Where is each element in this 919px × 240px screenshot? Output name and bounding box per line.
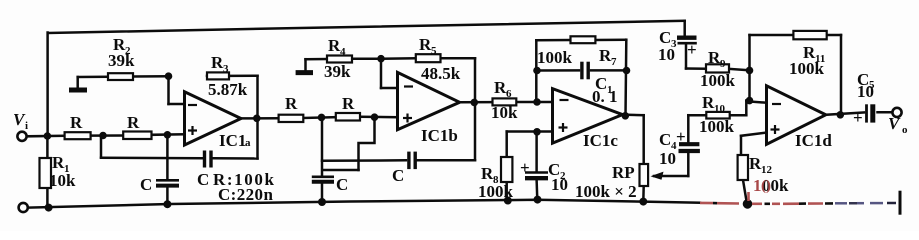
- svg-text:+: +: [676, 127, 686, 146]
- svg-text:39k: 39k: [108, 51, 135, 70]
- svg-text:RP: RP: [612, 163, 635, 182]
- svg-text:+: +: [520, 158, 530, 177]
- svg-text:IC1: IC1: [219, 131, 246, 150]
- svg-text:i: i: [25, 120, 28, 132]
- svg-text:10: 10: [659, 149, 676, 168]
- svg-text:5: 5: [431, 45, 437, 57]
- svg-text:C:220n: C:220n: [218, 185, 273, 204]
- svg-text:100k: 100k: [699, 117, 735, 136]
- svg-text:5.87k: 5.87k: [208, 80, 248, 99]
- svg-text:R: R: [342, 94, 355, 113]
- svg-text:0. 1: 0. 1: [592, 87, 618, 106]
- svg-text:o: o: [902, 124, 908, 136]
- svg-text:100k: 100k: [700, 71, 736, 90]
- svg-text:3: 3: [223, 63, 229, 75]
- svg-text:R: R: [127, 113, 140, 132]
- svg-text:6: 6: [506, 88, 512, 100]
- svg-text:a: a: [245, 137, 251, 149]
- svg-text:100k: 100k: [789, 59, 825, 78]
- svg-text:C: C: [197, 170, 209, 189]
- svg-text:10k: 10k: [491, 103, 518, 122]
- svg-text:9: 9: [720, 58, 726, 70]
- svg-text:10: 10: [714, 103, 726, 115]
- svg-text:C: C: [659, 130, 671, 149]
- svg-text:39k: 39k: [324, 62, 351, 81]
- svg-text:100k × 2: 100k × 2: [575, 182, 637, 201]
- svg-text:C: C: [336, 175, 348, 194]
- svg-text:100k: 100k: [478, 182, 514, 201]
- svg-text:V: V: [888, 114, 901, 133]
- svg-text:(): (): [761, 178, 771, 194]
- svg-text:+: +: [853, 108, 863, 127]
- svg-text:10: 10: [551, 175, 568, 194]
- svg-text:+: +: [687, 40, 697, 59]
- svg-text:10k: 10k: [49, 171, 76, 190]
- svg-text:7: 7: [611, 56, 617, 68]
- svg-text:R: R: [70, 113, 83, 132]
- svg-text:10: 10: [658, 45, 675, 64]
- svg-text:IC1c: IC1c: [583, 131, 618, 150]
- svg-text:12: 12: [761, 164, 773, 176]
- svg-text:4: 4: [340, 46, 346, 58]
- svg-text:10: 10: [857, 82, 874, 101]
- svg-text:C: C: [140, 175, 152, 194]
- svg-text:R: R: [285, 94, 298, 113]
- svg-text:100k: 100k: [537, 48, 573, 67]
- svg-text:C: C: [392, 166, 404, 185]
- svg-text:IC1d: IC1d: [795, 131, 832, 150]
- svg-text:IC1b: IC1b: [421, 126, 458, 145]
- svg-text:48.5k: 48.5k: [421, 64, 461, 83]
